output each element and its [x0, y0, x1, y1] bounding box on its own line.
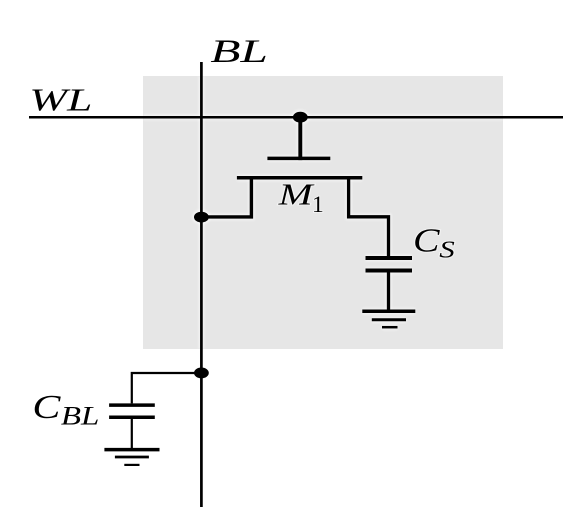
- wire CBL to BL: [132, 373, 202, 403]
- svg-text:WL: WL: [29, 82, 92, 117]
- DRAM cell shaded region: [143, 76, 503, 349]
- capacitor CS bottom plate: [366, 269, 413, 273]
- transistor M1 source leg: [201, 176, 251, 217]
- svg-text:C: C: [413, 222, 440, 259]
- ground CBL: [104, 448, 159, 452]
- junction BL-CBL: [194, 368, 209, 379]
- svg-text:BL: BL: [61, 402, 100, 431]
- wire BL (bit line): [200, 62, 203, 507]
- transistor M1 drain leg: [349, 176, 389, 258]
- wire CS to ground: [387, 271, 390, 312]
- svg-text:M: M: [277, 178, 315, 212]
- svg-text:1: 1: [312, 192, 324, 218]
- ground CS: [362, 310, 415, 314]
- capacitor CBL top plate: [109, 403, 155, 407]
- halo underlay of wires on shaded region: [0, 0, 1, 1]
- svg-text:BL: BL: [210, 34, 268, 70]
- capacitor CS top plate: [366, 256, 413, 260]
- transistor M1 gate bar: [267, 157, 330, 161]
- svg-text:C: C: [32, 389, 61, 426]
- wire CBL to ground: [131, 417, 133, 449]
- svg-text:S: S: [439, 237, 455, 264]
- junction gate-WL: [293, 112, 308, 123]
- capacitor CBL bottom plate: [109, 416, 155, 420]
- transistor M1 channel: [237, 176, 362, 180]
- wire WL (word line): [29, 116, 563, 119]
- junction BL-source: [194, 212, 209, 223]
- wire gate stem: [298, 117, 302, 160]
